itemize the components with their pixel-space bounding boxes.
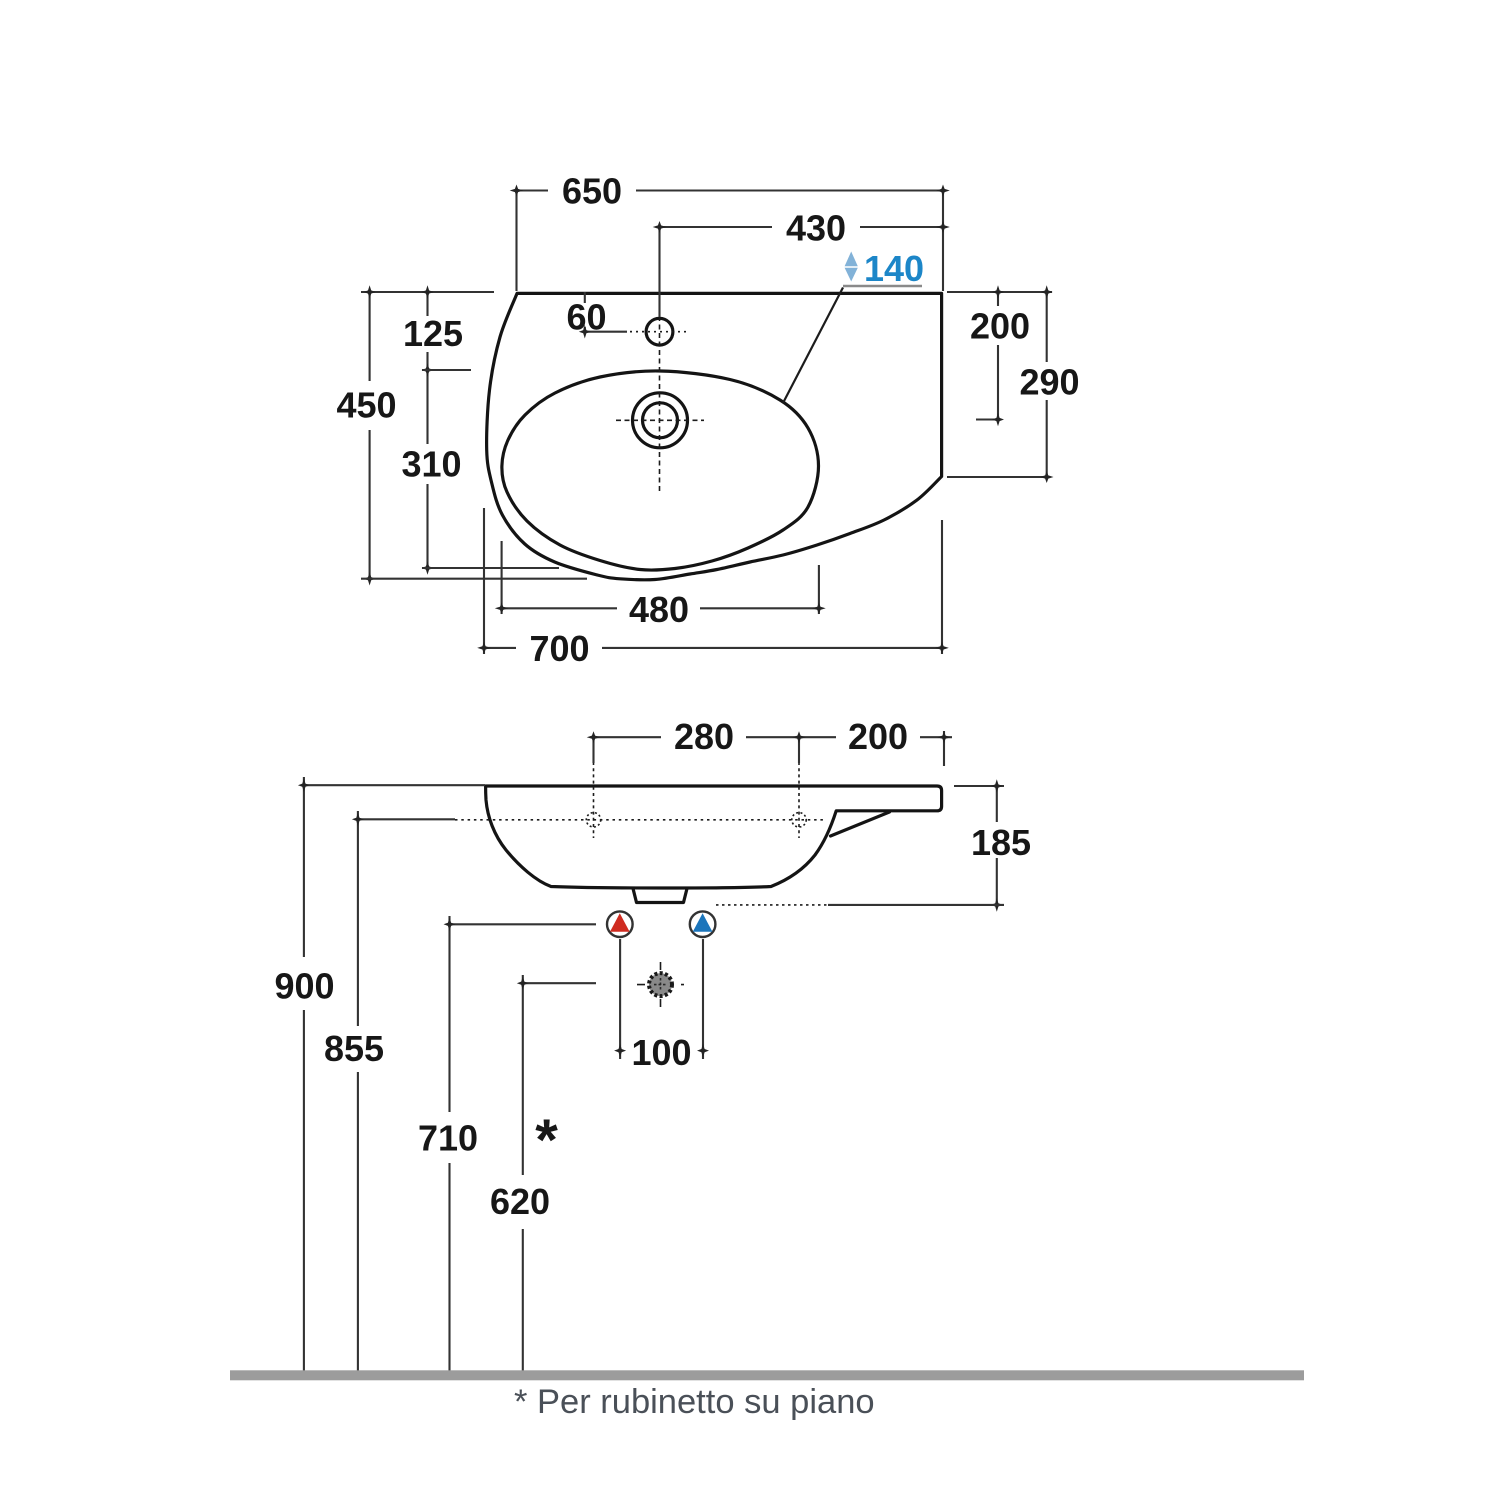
cold water symbol (blue triangle) xyxy=(690,911,716,937)
svg-text:480: 480 xyxy=(629,589,689,630)
floor bar xyxy=(230,1370,1304,1380)
leader line 140 to basin edge xyxy=(783,288,843,404)
bottom reference line (dotted then solid) xyxy=(716,904,828,906)
svg-text:430: 430 xyxy=(786,208,846,249)
dim 100 xyxy=(620,939,703,1059)
svg-text:280: 280 xyxy=(674,716,734,757)
faucet hole xyxy=(646,318,673,345)
dim 480 xyxy=(502,607,819,609)
dim 430 xyxy=(660,226,944,228)
dim 450 vertical xyxy=(369,292,371,579)
svg-text:* Per rubinetto su piano: * Per rubinetto su piano xyxy=(514,1383,875,1421)
dim 700 xyxy=(484,647,942,649)
dotted horizontal through faucet hole xyxy=(630,331,686,333)
svg-text:200: 200 xyxy=(848,716,908,757)
basin inner slope (side) xyxy=(831,812,890,836)
waste pipe (grey dashed circle) xyxy=(649,973,672,996)
svg-text:900: 900 xyxy=(274,966,334,1007)
dim 900 xyxy=(303,777,305,1372)
dim 855 xyxy=(357,811,359,1372)
svg-text:*: * xyxy=(535,1108,558,1173)
drain inner circle xyxy=(643,403,678,438)
dim 450 bottom extension xyxy=(361,578,587,580)
svg-text:290: 290 xyxy=(1019,361,1079,402)
drain outlet (side) xyxy=(633,889,687,903)
svg-text:650: 650 xyxy=(562,171,622,212)
dim 200 (plan, right) xyxy=(976,292,998,420)
svg-text:140: 140 xyxy=(864,248,924,289)
dim 620 xyxy=(522,975,524,1372)
310 bottom stub xyxy=(422,567,559,569)
svg-text:185: 185 xyxy=(971,822,1031,863)
svg-text:310: 310 xyxy=(401,444,461,485)
svg-text:125: 125 xyxy=(403,313,463,354)
dim 60 xyxy=(585,292,627,332)
left top extension line (450/125) xyxy=(361,291,494,293)
tap hole dashed circles on deck xyxy=(586,813,600,827)
deck dashed horizontal line xyxy=(455,819,823,821)
svg-text:100: 100 xyxy=(631,1032,691,1073)
svg-text:450: 450 xyxy=(336,385,396,426)
basin bowl (plan) xyxy=(502,371,819,570)
svg-text:855: 855 xyxy=(324,1028,384,1069)
centerline horizontal dashed through drain xyxy=(616,419,704,421)
125 bottom stub xyxy=(422,369,471,371)
dim 185 xyxy=(996,786,998,905)
right top extension (200/290) xyxy=(947,291,1052,293)
centerline vertical dashed through faucet + drain xyxy=(659,299,661,492)
dim 650 xyxy=(517,189,944,191)
drain outer circle xyxy=(633,393,688,448)
tap hole dashed verticals xyxy=(593,762,595,838)
dim 710 xyxy=(448,916,450,1372)
hot water symbol (red triangle) xyxy=(607,911,633,937)
sink outer outline (plan) xyxy=(487,293,942,579)
svg-text:200: 200 xyxy=(970,305,1030,346)
dim 140 (blue) with double arrow and underline leader xyxy=(845,252,858,267)
dim 290 (plan, right) xyxy=(1046,292,1048,477)
dim 125 / 310 shared vertical xyxy=(426,292,428,568)
svg-text:60: 60 xyxy=(566,297,606,338)
svg-text:700: 700 xyxy=(529,628,589,669)
dim 280 / 200 (side top) xyxy=(594,736,953,738)
svg-text:710: 710 xyxy=(418,1118,478,1159)
sink profile (side) xyxy=(486,786,942,888)
svg-text:620: 620 xyxy=(490,1181,550,1222)
